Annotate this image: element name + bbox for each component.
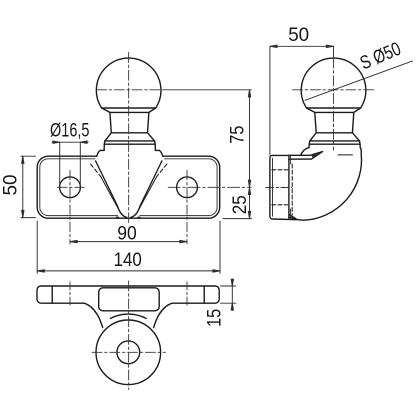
svg-text:50: 50: [1, 175, 22, 196]
bend line right (bottom view): [203, 286, 205, 303]
centerline bottom circle horizontal: [92, 351, 166, 353]
dim O16,5: arrows (outside, pointing inward): [53, 141, 87, 143]
svg-text:S Ø50: S Ø50: [357, 39, 404, 75]
dim 140: extension lines: [37, 221, 220, 273]
flange plate edge-on (side view): [270, 155, 304, 220]
dim 90: arrows: [70, 240, 187, 242]
V gusset left foot hidden dash: [116, 216, 119, 218]
dim O16,5: extension lines: [60, 142, 81, 186]
hidden neck bore upper edge (side view): [272, 169, 288, 171]
neck (front view): [110, 112, 149, 132]
centerline side ball horizontal: [293, 89, 375, 91]
svg-text:75: 75: [228, 126, 249, 144]
centerline right hole horizontal / 25 extension: [168, 186, 251, 188]
plate inner bend contour (front view): [40, 159, 217, 216]
dim 75: arrows: [248, 90, 250, 188]
centerline bottom hole right vertical: [186, 282, 188, 307]
plate front face (side view): [288, 155, 290, 219]
centerline left hole horizontal: [58, 186, 87, 188]
ball flat bottom chamfer lines (side view): [307, 108, 361, 112]
gusset wing flag top (side view): [289, 152, 323, 160]
dim O16,5: dimension line: [52, 141, 88, 143]
collar flare arc (bottom view): [111, 314, 147, 318]
flange plate (front view, rounded rect with top gap under collar): [37, 156, 220, 218]
collar step ledges (front view): [100, 149, 159, 151]
ball (tow ball sphere, front view): [96, 58, 161, 108]
dim 90: dimension line: [70, 241, 187, 243]
dim 25: arrows: [248, 187, 250, 218]
dim 50 left: extension ticks: [21, 156, 36, 217]
svg-text:90: 90: [117, 223, 137, 244]
centerline side ball vertical: [333, 58, 335, 150]
gusset wing tip wedge fill (side view): [312, 152, 323, 159]
plate bar outline (bottom view): [37, 286, 219, 303]
gusset S-curve left (bottom view): [84, 303, 103, 327]
V gusset left bend line (dashed top, solid below): [91, 164, 101, 176]
svg-text:15: 15: [204, 309, 225, 327]
centerline front vertical: [128, 53, 130, 223]
tab curves to plate top: [97, 150, 163, 156]
dim 15: extension lines: [221, 286, 236, 303]
dim 50 top: dimension line: [270, 45, 334, 47]
collar sides (side view): [309, 144, 360, 147]
dim 140: arrows: [37, 270, 220, 272]
leader line S O50 (side view sphere): [305, 61, 413, 100]
centerline bottom hole left vertical: [69, 282, 71, 307]
centerline right hole vertical / 90 extension: [186, 170, 188, 244]
dim 50 left: dimension line: [22, 156, 24, 217]
neck (side view): [315, 112, 354, 132]
collar rings (side view): [309, 141, 360, 144]
centerline front ball horizontal / 75 extension: [97, 89, 164, 91]
dim 50 left: arrows: [22, 156, 24, 217]
centerline bottom view vertical: [128, 281, 130, 390]
dim 15: arrows (outside, pointing inward): [231, 279, 233, 310]
centerline side plate horizontal: [266, 187, 292, 189]
boss circle (bottom view): [96, 320, 161, 385]
dim 25: bottom extension line: [223, 218, 252, 220]
collar sides (front view): [104, 144, 155, 150]
elbow outer curve (side view): [304, 148, 362, 221]
collar rings (front view): [104, 141, 155, 144]
hidden neck bore lower edge (side view): [272, 204, 288, 206]
V gusset right outer edge: [131, 161, 162, 217]
dim 50 top: extension lines: [270, 46, 334, 155]
center hole (bottom view): [117, 341, 140, 364]
svg-text:25: 25: [230, 195, 251, 214]
ball (side view): [301, 58, 366, 108]
plate front bend contour (side view): [290, 156, 292, 219]
bolt hole left (front view): [60, 177, 81, 198]
bottom gusset wedge (side view): [289, 214, 297, 219]
collar flare (front view): [105, 133, 155, 141]
far gusset wing edge (side view): [338, 154, 353, 156]
collar flare (side view): [310, 133, 360, 141]
dim 75/25: dimension line: [249, 90, 251, 219]
hidden neck edge behind fillet (side view): [291, 164, 293, 215]
dim 140: dimension line: [37, 270, 220, 272]
V gusset right foot hidden dash: [138, 216, 141, 218]
gusset S-curve right (bottom view): [154, 303, 173, 327]
dim 15: dimension line: [231, 279, 233, 311]
V gusset right bend line (dashed top, solid below): [157, 164, 167, 176]
centerline left hole vertical / 90 extension: [69, 170, 71, 244]
collar underside fillet (side view): [301, 148, 309, 156]
center slot rounded rect (bottom view): [99, 288, 160, 311]
plate inner bend contour (side view): [272, 158, 274, 216]
bolt hole right (front view): [177, 177, 198, 198]
dim 50 top: arrows: [270, 45, 334, 47]
ball flat bottom chamfer lines: [102, 108, 156, 112]
hidden gusset edge left (bottom view): [87, 304, 97, 314]
svg-text:140: 140: [114, 250, 142, 271]
svg-text:Ø16,5: Ø16,5: [50, 121, 90, 142]
hidden gusset edge right (bottom view): [160, 304, 170, 314]
bend line left (bottom view): [51, 286, 53, 303]
svg-text:50: 50: [288, 25, 309, 46]
V gusset left outer edge: [96, 161, 127, 217]
